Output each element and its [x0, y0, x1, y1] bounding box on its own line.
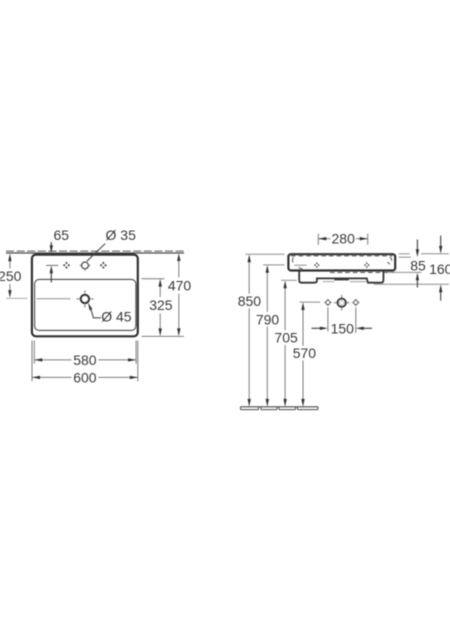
underside profile	[299, 271, 383, 283]
faucet hole circle O35	[82, 262, 89, 269]
705 extension line	[281, 279, 297, 281]
150 dim arrows	[312, 327, 321, 329]
580/600 right extension lines	[135, 341, 137, 364]
bowl bottom tick	[299, 267, 303, 269]
325 top extension line	[142, 278, 165, 280]
280 dim line	[318, 238, 330, 240]
svg-text:325: 325	[149, 297, 173, 313]
basin inner bowl	[35, 279, 136, 330]
shadow segment left	[323, 281, 334, 283]
160 top extension (body top level)	[399, 253, 410, 255]
svg-text:150: 150	[331, 320, 355, 336]
wall hatch dashes	[6, 250, 184, 252]
470 dim line	[178, 256, 180, 277]
svg-text:470: 470	[168, 278, 192, 294]
svg-text:280: 280	[332, 231, 356, 247]
inner bowl corner curve left	[292, 257, 295, 262]
svg-text:65: 65	[54, 227, 70, 243]
inner bowl corner curve right	[390, 257, 392, 261]
65 dim hole-center extension line	[46, 264, 58, 266]
hidden dashed line under body	[330, 272, 394, 274]
floor hatch segments	[241, 407, 319, 410]
floor line	[241, 406, 319, 408]
wall line	[6, 252, 184, 254]
svg-text:600: 600	[73, 369, 97, 385]
wall drain outlet circle	[338, 299, 346, 307]
570 extension line	[300, 301, 321, 303]
leader to O35 label	[87, 244, 105, 262]
250 bottom extension line	[6, 297, 28, 299]
160 dim arrows	[440, 236, 442, 247]
85 dim arrows	[416, 240, 418, 250]
160 bottom extension	[374, 283, 449, 285]
280 dim extension lines	[317, 234, 319, 245]
mounting hole cross right	[364, 262, 370, 268]
150 dim extension lines	[327, 308, 329, 332]
600 dim line	[32, 376, 72, 378]
svg-text:580: 580	[73, 352, 97, 368]
faucet knockout cross right	[100, 262, 107, 269]
470/325 bottom extension line	[142, 335, 185, 337]
580 dim line	[34, 359, 71, 361]
790 dim line	[266, 268, 268, 312]
leader arrow to O45 label	[88, 302, 93, 310]
hidden rim dashed line	[291, 255, 393, 257]
drain hole circle O45	[81, 295, 89, 303]
570 dim line	[302, 306, 304, 346]
325 dim line	[159, 282, 161, 297]
svg-text:705: 705	[274, 330, 298, 346]
faucet knockout cross left	[63, 262, 70, 269]
65 dim upper arrow	[50, 242, 52, 250]
body centerline fragment	[294, 264, 306, 266]
250 dim line	[9, 257, 11, 269]
svg-text:850: 850	[238, 293, 262, 309]
850 top extension line	[245, 253, 284, 255]
basin outer rect	[32, 255, 138, 337]
65 dim lower arrow	[50, 269, 52, 283]
shadow segment right	[350, 281, 367, 283]
svg-text:Ø 45: Ø 45	[101, 309, 132, 325]
85 bottom extension	[388, 271, 422, 273]
svg-text:790: 790	[256, 311, 280, 327]
705 dim line	[284, 284, 286, 330]
body outline	[288, 254, 395, 270]
svg-text:250: 250	[0, 268, 22, 284]
850 dim line	[248, 258, 250, 294]
mounting hole cross left	[314, 262, 320, 268]
svg-text:570: 570	[293, 345, 317, 361]
svg-text:160: 160	[429, 261, 450, 277]
drain centerline	[37, 298, 71, 300]
inner bowl tick right	[388, 262, 390, 264]
svg-text:Ø 35: Ø 35	[106, 227, 137, 243]
790 extension line	[263, 264, 285, 266]
580/600 left extension lines	[33, 341, 35, 364]
svg-text:85: 85	[410, 258, 426, 274]
drain rail tab	[334, 278, 348, 280]
85 top extension (rim level)	[399, 256, 411, 258]
fixing hole right	[354, 300, 358, 304]
fixing hole left	[326, 300, 330, 304]
